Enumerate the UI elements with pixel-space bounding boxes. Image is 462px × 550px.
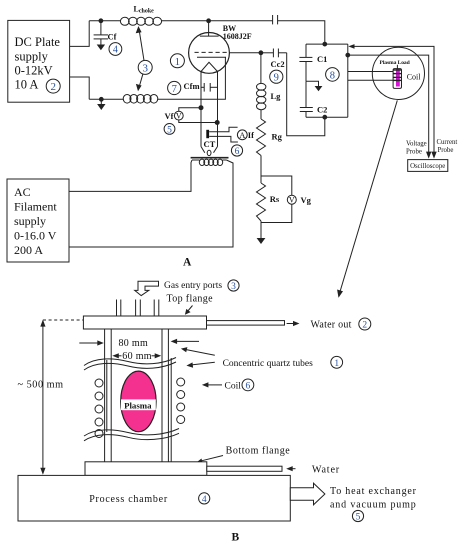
arrow tubes upper xyxy=(181,347,215,355)
svg-text:A: A xyxy=(183,257,192,269)
svg-text:C2: C2 xyxy=(317,105,327,115)
gas entry block arrow xyxy=(135,281,159,295)
wire Vf bottom xyxy=(179,120,217,123)
label Voltage Probe xyxy=(406,141,427,156)
svg-text:Top flange: Top flange xyxy=(167,294,214,305)
svg-text:9: 9 xyxy=(274,73,279,84)
wire top rail left segment xyxy=(89,20,121,22)
node Vf bottom tap xyxy=(215,121,219,125)
top flange xyxy=(83,316,206,329)
svg-text:supply: supply xyxy=(14,214,46,228)
svg-text:1608J2F: 1608J2F xyxy=(223,32,252,41)
node Vf top tap xyxy=(199,106,203,110)
resistor Rg xyxy=(257,119,266,156)
circled 1 (tubes) xyxy=(331,356,343,369)
wire transformer primary left to AC box xyxy=(69,160,192,191)
svg-text:~ 500 mm: ~ 500 mm xyxy=(18,380,64,391)
svg-text:Gas entry ports: Gas entry ports xyxy=(164,281,222,291)
svg-text:Probe: Probe xyxy=(406,148,422,155)
arrow current probe tap xyxy=(348,44,436,159)
wire filament lead right xyxy=(217,72,219,147)
svg-text:To heat exchanger: To heat exchanger xyxy=(330,486,417,497)
svg-text:2: 2 xyxy=(362,321,367,331)
arrow to top flange xyxy=(185,306,193,315)
svg-text:2: 2 xyxy=(50,81,56,93)
voltmeter Vg xyxy=(287,195,296,205)
svg-text:Lchoke: Lchoke xyxy=(134,5,155,15)
svg-text:1: 1 xyxy=(175,56,181,68)
node bottom rail ground xyxy=(99,97,103,101)
svg-text:4: 4 xyxy=(113,45,118,56)
circled 8 xyxy=(326,68,340,82)
capacitor Cfm xyxy=(201,83,218,92)
arrow tubes lower xyxy=(186,362,214,367)
ground under Rs xyxy=(257,238,266,244)
arrow circle3 to bottom choke xyxy=(136,74,143,91)
label To heat exchanger xyxy=(330,486,417,511)
water in pipe xyxy=(207,466,282,471)
wavy break lower xyxy=(84,429,179,441)
circled 4 (chamber) xyxy=(199,493,210,505)
inductor bottom choke xyxy=(123,95,158,104)
coil element xyxy=(393,65,401,89)
current transformer CT xyxy=(206,130,209,138)
AC filament supply box xyxy=(7,179,69,262)
quartz tube wall left extra xyxy=(106,360,108,432)
capacitor Cf xyxy=(94,21,108,45)
svg-text:7: 7 xyxy=(172,84,177,95)
wire coil feed top xyxy=(348,71,393,73)
quartz tube outer wall left xyxy=(104,329,106,462)
circled 6 (coil) xyxy=(242,379,254,392)
plasma ellipse xyxy=(121,371,156,432)
water out pipe xyxy=(207,321,285,326)
svg-text:Current: Current xyxy=(437,139,458,146)
arrow to coil xyxy=(202,382,222,387)
svg-text:5: 5 xyxy=(356,513,361,523)
dimension line 500mm xyxy=(40,320,45,475)
wire Cc2 to matching bottom xyxy=(287,53,325,136)
svg-text:6: 6 xyxy=(246,382,251,392)
node voltage probe tap xyxy=(346,53,350,57)
svg-text:V: V xyxy=(289,196,295,205)
wire voltage probe xyxy=(348,55,432,159)
inductor Lg xyxy=(257,53,266,110)
svg-text:Rs: Rs xyxy=(270,194,280,204)
svg-text:5: 5 xyxy=(167,125,172,135)
quartz tube outer wall right xyxy=(167,329,169,462)
svg-text:and vacuum pump: and vacuum pump xyxy=(330,500,417,511)
label Current Probe xyxy=(437,139,458,154)
svg-text:Lg: Lg xyxy=(271,91,282,101)
block arrow to heat exchanger xyxy=(290,483,325,505)
wire bottom rail left segment xyxy=(89,98,124,100)
circled 3 (gas ports) xyxy=(228,280,239,292)
svg-text:If: If xyxy=(248,130,254,140)
svg-text:Oscilloscope: Oscilloscope xyxy=(410,163,445,170)
svg-text:10 A: 10 A xyxy=(15,78,39,92)
wire filament lead left xyxy=(200,72,202,147)
circled 5 xyxy=(164,123,175,135)
svg-text:Process chamber: Process chamber xyxy=(89,494,168,505)
resistor Rs xyxy=(257,183,266,221)
ground under Cf xyxy=(97,45,105,51)
wire Rg to Rs xyxy=(260,156,262,184)
svg-text:Vf: Vf xyxy=(165,111,174,121)
node matching input xyxy=(323,42,327,46)
process chamber xyxy=(18,475,290,521)
wire CT to ammeter bottom xyxy=(209,136,238,142)
wire top rail middle xyxy=(161,20,272,22)
svg-text:Plasma: Plasma xyxy=(124,400,152,410)
arrow chassis branch xyxy=(306,81,322,91)
coil turn circles left xyxy=(95,379,103,438)
arrow to bottom flange xyxy=(196,456,223,464)
svg-text:Vg: Vg xyxy=(301,195,312,205)
wire matching bottom rail xyxy=(306,116,348,118)
ammeter A If xyxy=(237,130,247,140)
svg-text:80 mm: 80 mm xyxy=(119,338,149,349)
svg-text:A: A xyxy=(239,130,246,140)
svg-text:B: B xyxy=(232,532,240,544)
triode tube BW 1608J2F xyxy=(189,21,230,74)
capacitor C1 xyxy=(299,44,312,81)
plasma load circle xyxy=(372,47,424,99)
svg-text:Bottom flange: Bottom flange xyxy=(226,446,291,457)
DC plate supply box xyxy=(8,20,70,102)
svg-text:Plasma Load: Plasma Load xyxy=(380,60,411,66)
gas port tube 3 xyxy=(154,300,159,330)
quartz tube wall right extra xyxy=(170,358,172,462)
svg-text:60 mm: 60 mm xyxy=(122,351,152,362)
circled 1 xyxy=(170,54,184,68)
svg-text:DC Plate: DC Plate xyxy=(15,35,61,49)
wire cathode lead xyxy=(224,57,226,64)
wire matching top rail xyxy=(306,43,348,45)
arrow plasma load to figure B xyxy=(337,100,397,297)
circled 3 xyxy=(138,60,152,74)
wire Vf top xyxy=(179,108,201,112)
label BW 1608J2F xyxy=(223,24,252,41)
svg-text:Coil: Coil xyxy=(407,73,422,82)
svg-text:8: 8 xyxy=(330,70,335,81)
svg-text:4: 4 xyxy=(202,495,207,505)
node top rail / Cf xyxy=(99,19,103,23)
circled 9 xyxy=(270,70,283,84)
node matching bottom xyxy=(323,115,327,119)
wire grid to junction xyxy=(229,52,261,54)
capacitor C2 xyxy=(300,81,313,117)
svg-text:C1: C1 xyxy=(317,54,327,64)
wavy break upper xyxy=(84,358,176,371)
svg-text:Cf: Cf xyxy=(108,32,117,42)
circled 2 (DC supply) xyxy=(46,79,60,93)
svg-text:0-12kV: 0-12kV xyxy=(15,64,53,78)
voltmeter Vf xyxy=(174,111,183,120)
wire coil feed bottom xyxy=(348,79,393,81)
svg-text:Concentric quartz tubes: Concentric quartz tubes xyxy=(223,359,314,369)
coil turn circles right xyxy=(177,378,185,424)
wire matching right rail xyxy=(347,44,349,117)
wire Vg branch top xyxy=(261,176,292,195)
filament transformer xyxy=(191,147,229,166)
wire Vg branch bottom xyxy=(261,204,292,222)
gas port tube 1 xyxy=(117,300,121,330)
circled 7 xyxy=(168,81,181,94)
wire transformer primary right to AC return xyxy=(69,160,233,247)
svg-text:AC: AC xyxy=(14,185,31,199)
wire top rail right to matching input xyxy=(278,21,325,44)
arrow circle3 to top choke xyxy=(136,26,144,60)
svg-text:Cc2: Cc2 xyxy=(271,59,285,69)
circled 4 xyxy=(109,43,122,56)
wire bottom rail to cathode riser xyxy=(157,65,225,100)
gas port tube 2 xyxy=(136,300,141,330)
svg-text:0-16.0 V: 0-16.0 V xyxy=(14,229,57,243)
svg-text:Water out: Water out xyxy=(311,320,352,331)
ground under bottom rail xyxy=(97,99,105,110)
circled 2 (water out) xyxy=(359,318,371,331)
wire Rs bottom to ground xyxy=(260,221,262,238)
svg-text:CT: CT xyxy=(204,139,216,149)
svg-text:Rg: Rg xyxy=(272,132,283,142)
quartz tube inner wall left xyxy=(110,329,112,462)
circled 6 xyxy=(231,145,242,157)
dashed datum line xyxy=(43,319,83,321)
bottom flange xyxy=(85,462,207,476)
arrow water out xyxy=(287,321,300,326)
svg-text:Coil: Coil xyxy=(225,382,242,392)
quartz tube inner wall right xyxy=(161,329,163,462)
svg-text:Probe: Probe xyxy=(438,147,454,154)
wire Lg to Rg xyxy=(260,110,262,119)
svg-text:3: 3 xyxy=(231,282,236,292)
svg-text:Water: Water xyxy=(312,464,340,475)
svg-text:Filament: Filament xyxy=(14,200,57,214)
capacitor Cc2 xyxy=(261,49,287,58)
wire CT to ammeter top xyxy=(209,127,237,132)
inductor Lchoke (top choke) xyxy=(120,17,161,25)
svg-text:6: 6 xyxy=(235,147,240,157)
svg-text:V: V xyxy=(176,112,182,121)
arrow water in xyxy=(286,466,295,471)
svg-text:Cfm: Cfm xyxy=(184,81,200,91)
svg-text:1: 1 xyxy=(334,359,339,369)
node grid junction xyxy=(259,51,263,55)
node anode junction xyxy=(207,19,211,23)
circled 5 (pump) xyxy=(352,510,363,522)
svg-text:supply: supply xyxy=(15,50,49,64)
dimension 60mm xyxy=(112,351,161,362)
capacitor top coupling xyxy=(273,15,278,24)
oscilloscope box xyxy=(408,160,448,172)
svg-text:200 A: 200 A xyxy=(14,243,43,257)
wire DC box top to top rail xyxy=(70,21,90,47)
svg-text:3: 3 xyxy=(142,62,148,74)
svg-text:Voltage: Voltage xyxy=(406,141,427,148)
dimension 80mm xyxy=(79,338,199,349)
wire DC box bottom to bottom rail xyxy=(70,77,90,99)
